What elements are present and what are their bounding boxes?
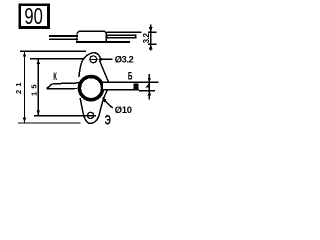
svg-text:Ø3.2: Ø3.2 xyxy=(115,54,134,65)
svg-text:Э: Э xyxy=(105,114,111,128)
extension line bottom (21) xyxy=(18,122,81,124)
dimension 21 xyxy=(24,51,26,123)
lead end block xyxy=(134,84,139,90)
mounting hole top o3.2 xyxy=(90,56,97,63)
svg-text:Ø10: Ø10 xyxy=(115,105,133,116)
svg-text:90: 90 xyxy=(24,4,42,29)
leader o3.2 xyxy=(97,58,102,61)
flange outline (pear shape) xyxy=(93,53,108,83)
base lead B (right bar) xyxy=(103,82,139,90)
left lead (side view) xyxy=(49,35,78,37)
dimension 15 xyxy=(37,59,39,116)
right tab top line / extension line xyxy=(107,31,142,33)
leader o10 xyxy=(102,97,107,102)
extension line hole center bottom (15) xyxy=(34,115,96,117)
svg-text:Б: Б xyxy=(128,70,133,82)
figure number badge "90" xyxy=(20,4,49,29)
extension line hole center top (15) xyxy=(30,58,85,60)
lead width dimension xyxy=(148,74,150,100)
flange lower outline with bottom lobe xyxy=(80,90,107,123)
extension line top (21) xyxy=(20,50,86,52)
bottom extension tick (3.2 dim) xyxy=(148,43,157,45)
svg-text:3.2: 3.2 xyxy=(142,32,151,43)
dimension line 3.2 xyxy=(150,25,152,51)
bottom flange band (side view) xyxy=(76,41,130,43)
flange upper-left edge xyxy=(79,53,93,77)
svg-text:К: К xyxy=(53,70,57,82)
right lead bar (side view) xyxy=(107,35,136,38)
can body outline (side view) xyxy=(77,31,106,41)
collector lead K (parallelogram) xyxy=(47,83,79,89)
can circle o10 xyxy=(79,77,102,100)
mounting hole bottom xyxy=(88,112,94,118)
